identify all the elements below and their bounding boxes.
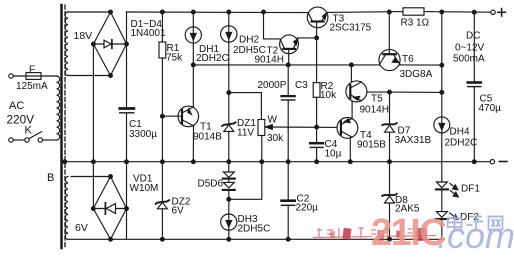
svg-text:2000P: 2000P (258, 80, 287, 91)
wire: C1 to mid rail and down to bridge2 right vertex (126, 113, 128, 209)
svg-text:6V: 6V (172, 206, 185, 217)
wire: node line DH1 to T2 base (193, 64, 379, 66)
- output terminal (490, 160, 494, 164)
junction: D8 on bottom rail (388, 237, 392, 241)
junction: T6 base on top rail (387, 10, 391, 14)
junction: R1 line on mid rail (161, 160, 165, 164)
transformer core dashed line (64, 5, 66, 248)
svg-text:DH4: DH4 (450, 127, 470, 138)
bridge D1~D4 inner diode (93, 43, 126, 45)
svg-text:3AX31B: 3AX31B (395, 135, 432, 146)
capacitor C4 (316, 127, 318, 142)
junction: T6 emitter on output column (440, 63, 444, 67)
svg-text:DC: DC (466, 31, 480, 42)
wire: T5 right lead to D7 line (367, 91, 390, 93)
junction: D7/D8 on mid rail (388, 160, 392, 164)
wire: T5 top lead to node line (350, 65, 352, 81)
zener DZ1 (222, 122, 235, 126)
svg-text:DF1: DF1 (461, 184, 480, 195)
svg-text:11V: 11V (237, 128, 254, 139)
wire: DH1 to T1 collector (192, 43, 194, 106)
transistor T1 (178, 106, 199, 127)
wire: 18V winding top to bridge (68, 11, 111, 13)
wire: C1 column / bridge1 right vertex down to C1 (126, 44, 128, 107)
svg-text:9014H: 9014H (360, 105, 389, 116)
wire: DH4 down through mid rail to DF1 (441, 133, 443, 182)
svg-text:9014B: 9014B (193, 132, 222, 143)
svg-text:2DH2C: 2DH2C (196, 53, 229, 64)
wire: D6 to DH3 node (228, 190, 230, 214)
svg-text:18V: 18V (74, 30, 93, 42)
junction: R1 top on rail (161, 10, 165, 14)
svg-text:W: W (268, 115, 278, 126)
switch K (25, 138, 29, 142)
junction: C4 on mid rail (315, 160, 319, 164)
transformer core solid line (60, 5, 63, 248)
svg-text:2DH2C: 2DH2C (445, 138, 478, 149)
current diode DH1 (192, 12, 194, 27)
wire: 18V winding bottom to bridge (68, 75, 111, 77)
capacitor C5 (473, 12, 475, 81)
junction: DH1 on top rail (191, 10, 195, 14)
svg-text:F: F (29, 65, 35, 76)
wire: switch to primary (43, 139, 57, 141)
wire: top rail left segment (127, 11, 309, 14)
wire: mid rail (65, 161, 490, 163)
junction: C1 column on mid rail (125, 160, 129, 164)
junction: T1 base node (161, 114, 165, 118)
+ output terminal (491, 10, 495, 14)
diode D7 (389, 92, 391, 123)
transistor T4 (337, 118, 358, 139)
junction: D7 line on output column (440, 91, 444, 95)
svg-text:2DH5C: 2DH5C (238, 224, 271, 235)
watermark red small text row (313, 228, 436, 238)
junction: DH3 on bottom rail (227, 237, 231, 241)
capacitor C3 (287, 65, 289, 95)
resistor R1 (161, 12, 163, 42)
junction: mid rail start (63, 160, 67, 164)
svg-text:2SC3175: 2SC3175 (330, 23, 372, 34)
capacitor C1 (120, 107, 134, 110)
wire: T6 right lead to output column (400, 64, 442, 66)
bridge rectifier VD1 diamond (93, 177, 126, 240)
wire: T4 emitter up to T5 (351, 101, 353, 118)
junction: W bottom on mid rail (260, 160, 264, 164)
junction: bridge2 top vertex (109, 175, 113, 179)
svg-text:T5: T5 (371, 94, 383, 105)
diode D8 (389, 162, 391, 194)
zener DZ2 (156, 200, 169, 204)
svg-text:DH2: DH2 (239, 35, 259, 46)
wire: T2 emitter to T3 base node (298, 37, 317, 39)
capacitor C2 (287, 162, 289, 200)
LED DF1 (436, 182, 447, 188)
wire: output column x442 (441, 12, 443, 117)
wire: 6V winding bottom / bottom rail (68, 238, 442, 240)
svg-text:.com: .com (437, 215, 514, 255)
potentiometer W (258, 120, 265, 136)
transistor T3 (307, 7, 328, 28)
junction: C2 on bottom rail (286, 237, 290, 241)
wire: terminal to switch (13, 139, 25, 141)
junction: bridge1 bottom vertex (109, 74, 113, 78)
svg-text:0~12V: 0~12V (455, 43, 485, 54)
svg-text:500mA: 500mA (453, 54, 485, 65)
svg-text:W10M: W10M (130, 183, 159, 194)
diode D5 (228, 162, 230, 172)
junction: T2 collector on top rail (262, 10, 266, 14)
wire: DH2 down to DZ1 node (228, 42, 230, 123)
wire: T6 left lead joins node line (378, 64, 380, 66)
svg-text:220µ: 220µ (296, 203, 319, 214)
junction: D6/DH3/C2-line node (227, 197, 231, 201)
junction: DH2 on top rail (227, 10, 231, 14)
wire: DF2 to bottom rail (441, 219, 443, 239)
wire: T2 base down to node line (288, 50, 290, 65)
junction: T2 base / C3 node (286, 63, 290, 67)
wire: DH2 node to W pot top (229, 93, 262, 120)
svg-text:9014H: 9014H (255, 55, 284, 66)
wire: T1 emitter to mid rail (192, 126, 194, 162)
svg-text:R3 1Ω: R3 1Ω (401, 18, 430, 29)
svg-text:6V: 6V (75, 222, 88, 234)
AC input terminal top (9, 74, 13, 78)
wire: DF1 to DF2 (441, 189, 443, 211)
junction: bridge1 left vertex (92, 42, 96, 46)
wire: bridge2 right vertex down to bottom rail (126, 209, 128, 240)
svg-text:3300µ: 3300µ (129, 129, 157, 140)
junction: T5/D7 node (388, 90, 392, 94)
resistor R2 (316, 38, 318, 83)
junction: DZ2 on bottom rail (161, 237, 165, 241)
wire: T3 base lead (316, 23, 318, 38)
svg-text:B: B (47, 172, 54, 184)
current diode DH3 (221, 214, 237, 230)
transformer primary winding (57, 76, 60, 140)
junction: bridge1 right vertex (125, 42, 129, 46)
svg-text:AC: AC (9, 100, 24, 112)
junction: DH1/T1 node on base line (191, 63, 195, 67)
junction: T3 base / R2 node (315, 36, 319, 40)
junction: C5 on mid rail (472, 160, 476, 164)
svg-text:10µ: 10µ (325, 149, 342, 160)
current diode DH4 (434, 117, 450, 133)
current diode DH2 (228, 12, 230, 26)
transistor T5 (346, 81, 367, 102)
junction: DH2/W node (227, 91, 231, 95)
junction: left vertex line on mid rail (92, 160, 96, 164)
wire: wiper line to T4 base (266, 126, 341, 128)
junction: bridge2 right vertex (125, 207, 129, 211)
junction: bridge1 top vertex (109, 10, 113, 14)
junction: T1 emitter on mid rail (191, 160, 195, 164)
svg-text:75k: 75k (166, 53, 183, 64)
svg-text:30k: 30k (267, 133, 284, 144)
junction: C5 on top rail (472, 10, 476, 14)
svg-text:K: K (25, 125, 33, 137)
LED DF2 (436, 212, 447, 218)
wire: 6V winding top to bridge2 (71, 176, 111, 178)
svg-text:1N4001: 1N4001 (131, 28, 166, 39)
transformer secondary 18V winding (65, 12, 68, 75)
svg-text:125mA: 125mA (16, 81, 48, 92)
wire: D7 line (390, 91, 442, 93)
junction: T4 on mid rail (348, 160, 352, 164)
junction: bridge2 bottom vertex (109, 237, 113, 241)
transistor T2 (264, 12, 281, 39)
wire: DH3 to bottom rail (228, 230, 230, 239)
svg-text:10k: 10k (320, 90, 337, 101)
wire: terminal to fuse (13, 75, 56, 77)
junction: R2/C4/wiper node (315, 125, 319, 129)
junction: bridge2 left vertex (91, 207, 95, 211)
svg-text:470µ: 470µ (479, 103, 502, 114)
junction: DZ1 on mid rail (227, 160, 231, 164)
wire: T6 base up to top rail (388, 12, 390, 54)
svg-text:D5D6: D5D6 (198, 179, 224, 190)
svg-text:C3: C3 (295, 80, 308, 91)
junction: C3/C2 on mid rail (286, 160, 290, 164)
fuse F (26, 73, 41, 80)
svg-text:T6: T6 (402, 54, 414, 65)
watermark hanzi dian-zi-wang (448, 215, 503, 231)
junction: output column on top rail (440, 10, 444, 14)
diode D6 (228, 179, 230, 183)
wire: node to W bottom line (229, 162, 262, 200)
wire: top rail right segment (328, 11, 403, 14)
svg-text:21IC: 21IC (371, 212, 446, 254)
wire: bridge1 right vertex up to top rail corner (126, 12, 128, 44)
svg-text:3DG8A: 3DG8A (400, 69, 433, 80)
wire: bridge1 left vertex down to bridge2 left vertex (92, 44, 94, 209)
wire: top rail after R3 to + terminal (424, 11, 491, 14)
svg-text:9015B: 9015B (357, 140, 386, 151)
transistor T6 (379, 49, 400, 70)
bridge VD1 inner diode (93, 208, 126, 210)
bridge rectifier D1~D4 diamond (93, 12, 126, 76)
transformer secondary 6V winding (65, 177, 68, 240)
wire: T4 collector to mid rail (349, 138, 351, 162)
junction: T5 on node line (350, 63, 354, 67)
AC input terminal bottom (9, 138, 13, 142)
resistor R3 (403, 8, 424, 15)
